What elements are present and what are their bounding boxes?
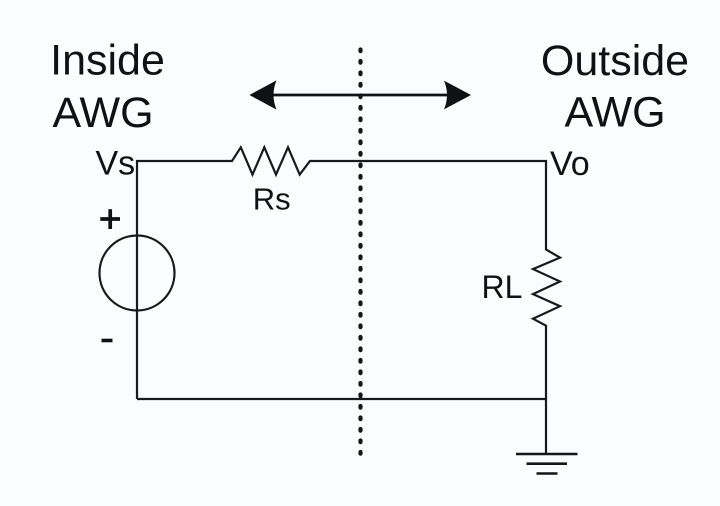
svg-text:RL: RL: [482, 269, 523, 305]
svg-text:AWG: AWG: [52, 89, 153, 137]
svg-text:Vo: Vo: [550, 145, 590, 183]
svg-text:AWG: AWG: [564, 89, 665, 137]
svg-text:Vs: Vs: [96, 145, 136, 183]
svg-text:Rs: Rs: [253, 182, 291, 217]
svg-text:Inside: Inside: [50, 37, 165, 85]
svg-text:Outside: Outside: [541, 37, 689, 85]
